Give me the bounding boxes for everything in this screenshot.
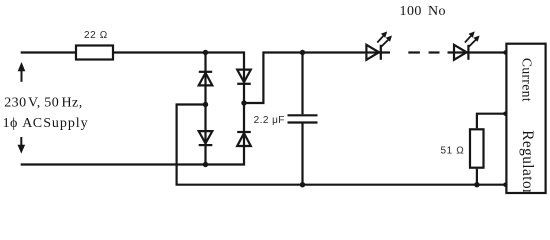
node junction dot: right branch midpoint DC+ [241,100,246,105]
node junction dot: DC+ at regulator pin [503,50,507,54]
svg-text:1ϕACSupply: 1ϕACSupply [3,116,89,131]
node junction dot: R2 feed at regulator pin [503,112,507,116]
node junction dot: bottom AC rail / left branch [203,162,208,167]
op-amp U1 current regulator box [506,44,545,193]
LED LED2 emission arrow b [469,36,480,47]
resistor R2 51 ohm box (vertical) [470,129,484,167]
node junction dot: DC- rail / resistor R2 [474,182,479,187]
wire resistor R2 bottom lead [476,169,478,185]
LED LED1 symbol [366,45,380,60]
node junction dot: top rail / capacitor [300,50,305,55]
svg-text:22 Ω: 22 Ω [84,30,108,41]
wire left bridge branch vertical [204,53,206,165]
node junction dot: top wire / left branch [203,50,208,55]
resistor R1 22 ohm box [76,46,113,60]
diode D2 bridge upper-right (pointing down) [237,70,251,84]
node junction dot: DC- rail at regulator pin [503,183,507,187]
svg-text:Current: Current [520,58,535,102]
source arrow down (AC neutral) [18,137,26,154]
svg-text:51 Ω: 51 Ω [441,145,465,156]
wire capacitor bottom lead [301,124,303,185]
wire dash segment 2 of LED string break [429,51,440,53]
svg-text:100 No: 100 No [400,4,447,19]
wire DC+ output into regulator [448,51,506,53]
diode D4 bridge lower-right (pointing up) [237,132,251,146]
LED LED2 symbol [454,45,468,60]
wire DC- rail: from left branch midpoint, around bridge, along bottom to regulator [177,105,506,185]
wire AC loop: top live wire, right bridge branch, bottom AC rail [21,53,244,165]
source arrow up (AC phase) [18,62,26,82]
capacitor C1 plates [288,115,318,122]
wire dash segment 1 of LED string break [408,51,420,53]
node junction dot: DC- rail / capacitor [300,182,305,187]
diode D3 bridge lower-left (pointing down) [199,131,213,145]
node junction dot: left branch midpoint DC- [203,102,208,107]
wire capacitor top lead [301,53,303,115]
LED LED2 emission arrow a [465,31,475,42]
svg-text:230V,50Hz,: 230V,50Hz, [4,96,82,111]
LED LED1 emission arrow b [381,36,392,47]
wire regulator to resistor R2 top lead [477,114,506,129]
LED LED1 emission arrow a [377,31,387,42]
wire DC+ output: right branch midpoint, riser, top rail to LED string [244,53,390,104]
svg-text:Regulator: Regulator [519,130,536,194]
diode D1 bridge upper-left (pointing up) [199,72,213,86]
svg-text:2.2 μF: 2.2 μF [254,115,285,126]
